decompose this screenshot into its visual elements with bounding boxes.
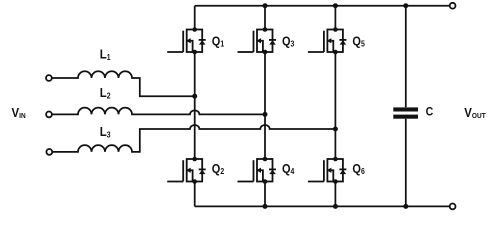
- svg-text:C: C: [426, 106, 434, 119]
